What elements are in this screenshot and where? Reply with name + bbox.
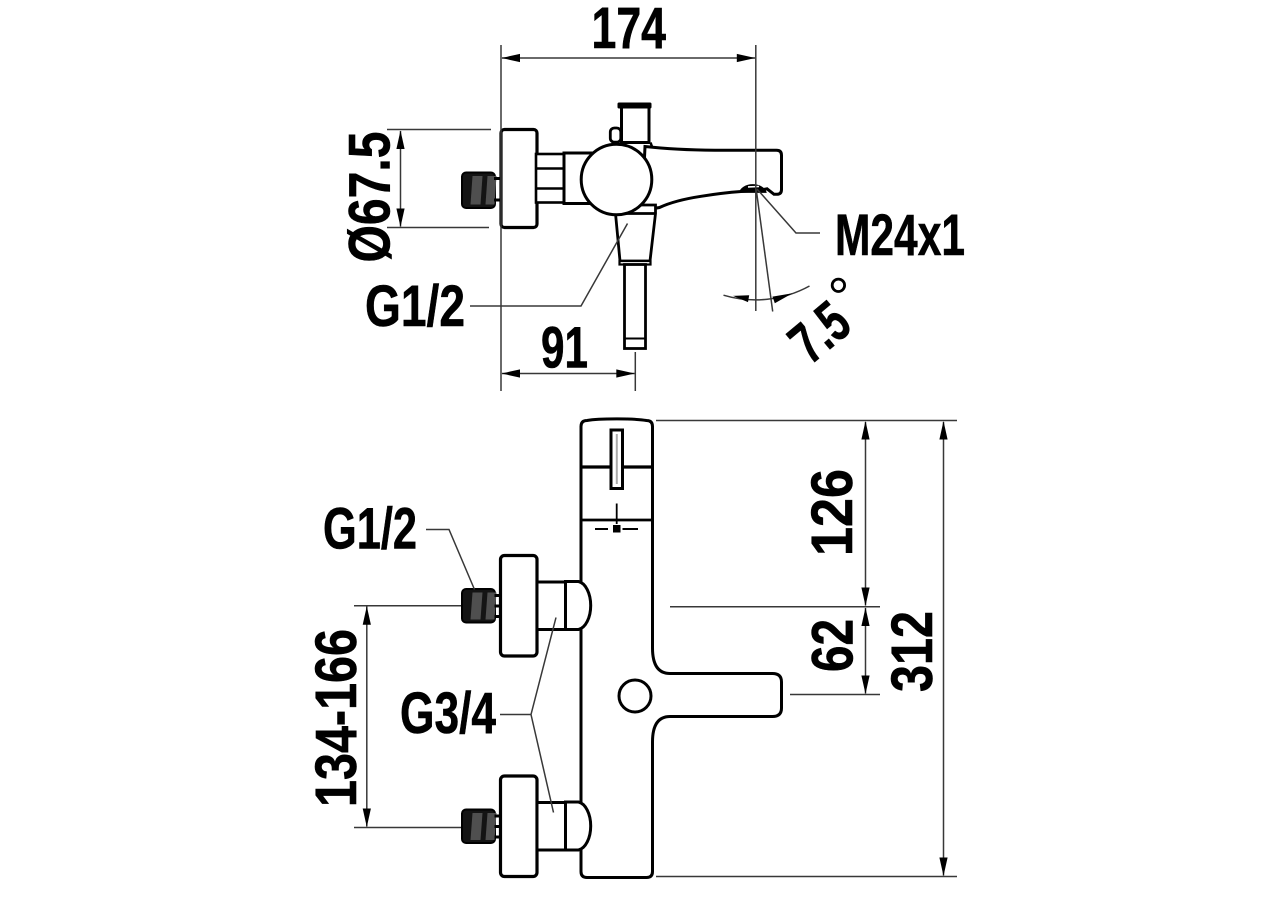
svg-text:312: 312: [880, 611, 945, 692]
union nut: [564, 153, 594, 204]
cone collar: [620, 261, 651, 265]
extension line left (wall plane): [500, 45, 502, 391]
handle stem to spout joint: [651, 143, 653, 149]
leader G3/4 twin: [500, 618, 556, 813]
hand-shower hose nipple tube: [625, 265, 646, 349]
slot inner shading: [616, 434, 618, 484]
connector top: [537, 582, 566, 630]
cap with round end bottom: [566, 802, 591, 850]
dimension line 126: [865, 422, 867, 606]
arrow 134-166 up: [363, 606, 371, 625]
handle top lid: [618, 103, 652, 109]
centre mark dot: [613, 525, 621, 533]
extension line spout axis right: [790, 694, 880, 696]
arc arrow right: [773, 293, 793, 303]
cap with round end top: [566, 582, 591, 630]
handle lock tab: [610, 128, 621, 142]
arrow 174 left: [502, 54, 521, 62]
svg-text:G1/2: G1/2: [323, 497, 417, 562]
extension line bottom connection left: [354, 827, 461, 829]
centre mark dash right: [623, 528, 639, 530]
diverter hole circle: [619, 680, 651, 712]
svg-text:91: 91: [541, 316, 588, 381]
dimension line 134-166: [366, 607, 368, 827]
arrow 312 down: [939, 858, 947, 877]
knurled screw bottom (front view): [462, 810, 495, 844]
svg-text:G3/4: G3/4: [400, 681, 496, 746]
svg-text:134-166: 134-166: [304, 629, 369, 807]
extension / centre line through aerator: [755, 45, 757, 311]
arrow 126 down: [861, 588, 869, 607]
dimension line dia67.5: [400, 131, 402, 227]
hand-shower outlet cone: [616, 205, 656, 261]
top inlet assembly: [462, 556, 591, 657]
arrow 312 up: [939, 421, 947, 440]
aerator lens (M24x1 outlet): [739, 184, 767, 193]
extension line body top right: [656, 420, 957, 422]
wall flange (side view): [501, 130, 537, 228]
svg-text:174: 174: [592, 0, 667, 61]
thread tabs top: [495, 594, 501, 597]
svg-text:M24x1: M24x1: [835, 203, 965, 268]
thread tabs bottom: [495, 815, 501, 818]
union inner profile line lower: [537, 187, 563, 189]
arrow dia67.5 down: [396, 209, 404, 228]
dimension line 91: [502, 373, 635, 375]
spout (side view): [642, 147, 782, 211]
union inner profile line upper: [537, 167, 563, 169]
svg-text:62: 62: [801, 619, 866, 672]
dimension line 312: [943, 422, 945, 876]
arrow 91 right: [616, 369, 635, 377]
7.5 degree arc: [724, 286, 810, 300]
union body between flange and cartridge: [536, 154, 564, 203]
leader M24x1: [757, 189, 820, 233]
body separation line lower: [581, 519, 653, 522]
handle lever slot: [611, 430, 623, 489]
svg-text:Ø67.5: Ø67.5: [338, 132, 403, 263]
arrow 91 left: [502, 369, 521, 377]
handle stem: [622, 107, 650, 143]
arrow dia67.5 up: [396, 131, 404, 150]
nipple end cap line: [625, 338, 645, 340]
dimension line 62: [865, 608, 867, 694]
knurled screw (side view): [462, 173, 497, 209]
svg-text:G1/2: G1/2: [365, 274, 465, 339]
centre mark dash left: [595, 528, 608, 530]
arrow 62 down: [861, 676, 869, 695]
svg-text:126: 126: [800, 469, 865, 556]
screw-to-flange connector tabs: [494, 177, 501, 180]
extension line dia67.5 top: [387, 129, 491, 131]
mixer body with spout stub (front view): [581, 419, 782, 878]
arc arrow left: [733, 295, 749, 302]
dimension line 174: [502, 57, 755, 59]
leader G1/2 front view: [426, 530, 475, 590]
arrow 126 up: [861, 421, 869, 440]
centre mark vertical: [616, 504, 618, 525]
arrow 174 right: [737, 54, 756, 62]
arrow 62 up: [861, 608, 869, 627]
body separation line upper: [581, 465, 653, 468]
extension line 91 right: [634, 352, 636, 391]
extension line connection centre right: [670, 606, 880, 608]
7.5 degree slanted axis: [756, 190, 772, 312]
bottom inlet assembly: [462, 776, 591, 877]
wall flange top (front view): [501, 556, 538, 657]
knurled screw top (front view): [462, 589, 495, 623]
cone shoulder line: [616, 212, 656, 215]
connector bottom: [537, 803, 566, 851]
leader G1/2 top view: [470, 224, 628, 307]
arrow 134-166 down: [363, 809, 371, 828]
cartridge housing circle: [581, 144, 652, 215]
extension line dia67.5 bottom: [387, 227, 489, 229]
extension line body bottom right: [656, 876, 957, 878]
wall flange bottom (front view): [501, 776, 538, 877]
extension line top connection left: [354, 605, 461, 607]
